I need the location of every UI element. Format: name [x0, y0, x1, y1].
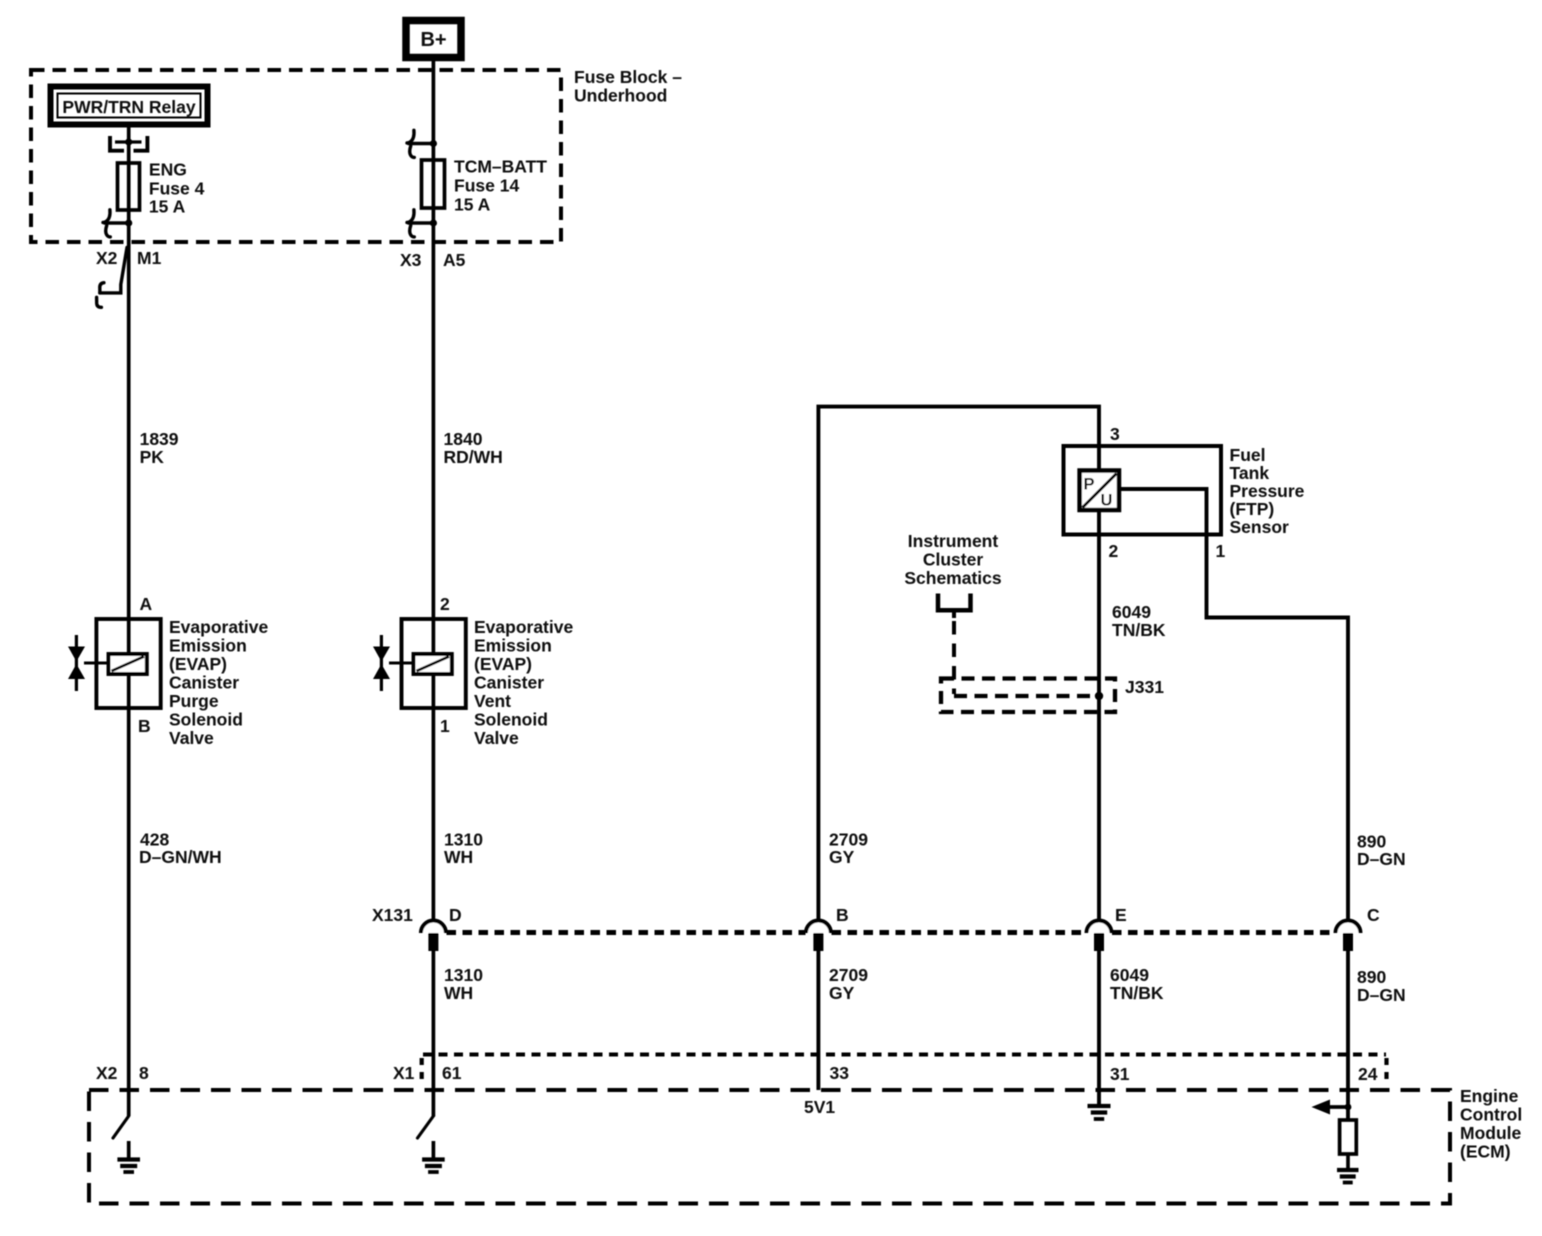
- label 1310 WH lower: [444, 965, 483, 1003]
- EVAP canister vent solenoid valve: [373, 594, 466, 736]
- signal arrow at pin 24: [1312, 1100, 1352, 1115]
- svg-text:2: 2: [440, 594, 450, 614]
- ground at ECM pin 31: [1088, 1090, 1111, 1119]
- svg-text:Schematics: Schematics: [904, 568, 1002, 588]
- X1 dotted end mark right: [1384, 1058, 1388, 1086]
- svg-text:Vent: Vent: [474, 691, 511, 711]
- svg-text:PK: PK: [140, 447, 165, 467]
- label 890 D-GN lower: [1357, 967, 1406, 1005]
- connector terminal E: [1087, 905, 1127, 951]
- splice J331 dashed enclosure: [941, 679, 1115, 713]
- svg-text:Purge: Purge: [169, 691, 219, 711]
- svg-text:Cluster: Cluster: [923, 550, 983, 570]
- svg-text:Fuse 14: Fuse 14: [454, 176, 519, 196]
- label: Evaporative Emission (EVAP) Canister Purge Solenoid Valve: [169, 617, 268, 748]
- svg-text:X1: X1: [393, 1063, 415, 1083]
- connector pass-through at X2 M1 (diagonal and hooks): [97, 248, 127, 308]
- wire 890 D-GN run: FTP pin 1 to connector C: [1119, 489, 1348, 920]
- label 2709 GY lower: [829, 965, 868, 1003]
- svg-text:1310: 1310: [444, 965, 483, 985]
- svg-text:GY: GY: [829, 847, 855, 867]
- engine control module dashed box: [89, 1090, 1450, 1204]
- svg-text:TN/BK: TN/BK: [1110, 983, 1164, 1003]
- svg-text:J331: J331: [1125, 677, 1164, 697]
- label 1839 PK: [140, 429, 179, 467]
- svg-text:ENG: ENG: [149, 160, 187, 180]
- svg-text:3: 3: [1110, 424, 1120, 444]
- dashed reference wire to instrument cluster: [952, 621, 956, 694]
- label: Fuel Tank Pressure (FTP) Sensor: [1230, 445, 1305, 537]
- svg-text:GY: GY: [829, 983, 855, 1003]
- svg-text:U: U: [1101, 492, 1113, 510]
- svg-text:WH: WH: [444, 847, 473, 867]
- fuse block underhood dashed box: [31, 70, 561, 242]
- connector X131 dashed line: [447, 930, 1336, 935]
- connector terminal above TCM fuse: [407, 130, 437, 157]
- svg-text:WH: WH: [444, 983, 473, 1003]
- label 6049 TN/BK lower: [1110, 965, 1164, 1003]
- svg-text:X2: X2: [96, 1063, 118, 1083]
- svg-text:X131: X131: [372, 905, 413, 925]
- svg-text:(EVAP): (EVAP): [169, 654, 227, 674]
- connector terminal below ENG fuse: [103, 210, 132, 237]
- svg-text:1839: 1839: [140, 429, 179, 449]
- connector terminal C: [1336, 905, 1381, 951]
- connector X3 A5 labels: [400, 250, 466, 270]
- svg-text:1840: 1840: [444, 429, 483, 449]
- label 890 D-GN upper: [1357, 832, 1406, 870]
- relay PWR/TRN Relay label box: [51, 87, 208, 125]
- svg-text:15 A: 15 A: [454, 195, 491, 215]
- svg-text:2: 2: [1109, 541, 1119, 561]
- svg-text:1: 1: [440, 716, 450, 736]
- svg-text:Valve: Valve: [169, 728, 214, 748]
- svg-text:33: 33: [830, 1063, 850, 1083]
- svg-text:Valve: Valve: [474, 728, 519, 748]
- svg-text:15 A: 15 A: [149, 197, 186, 217]
- svg-text:RD/WH: RD/WH: [444, 447, 503, 467]
- label: Engine Control Module (ECM): [1460, 1086, 1522, 1162]
- svg-text:D–GN: D–GN: [1357, 985, 1406, 1005]
- label: Evaporative Emission (EVAP) Canister Vent Solenoid Valve: [474, 617, 573, 748]
- svg-text:Tank: Tank: [1230, 463, 1270, 483]
- fuse TCM-BATT Fuse 14 15 A: [422, 157, 548, 215]
- svg-text:Evaporative: Evaporative: [169, 617, 268, 637]
- svg-text:D: D: [449, 905, 462, 925]
- svg-text:B: B: [836, 905, 849, 925]
- wire left branch: relay to ECM pin 8 (1839 PK / 428 D-GN/WH): [127, 124, 131, 1116]
- connector X2 M1 labels: [96, 248, 162, 268]
- connector terminal D: [421, 905, 462, 951]
- svg-text:31: 31: [1110, 1064, 1130, 1084]
- svg-text:X3: X3: [400, 250, 422, 270]
- wire resistor to ground: [1346, 1154, 1350, 1169]
- label 1840 RD/WH: [444, 429, 503, 467]
- svg-text:B+: B+: [420, 29, 446, 51]
- svg-text:5V1: 5V1: [804, 1097, 835, 1117]
- svg-text:Sensor: Sensor: [1230, 517, 1290, 537]
- svg-text:Canister: Canister: [474, 673, 544, 693]
- connector terminal B: [806, 905, 849, 951]
- svg-text:(FTP): (FTP): [1230, 499, 1275, 519]
- svg-text:TN/BK: TN/BK: [1112, 620, 1166, 640]
- svg-text:Control: Control: [1460, 1105, 1522, 1125]
- svg-text:D–GN/WH: D–GN/WH: [139, 847, 222, 867]
- svg-text:Solenoid: Solenoid: [169, 710, 243, 730]
- svg-text:24: 24: [1358, 1064, 1378, 1084]
- svg-text:Instrument: Instrument: [908, 531, 999, 551]
- pressure transducer P/U symbol: [1080, 471, 1119, 511]
- wire 2709 GY lower (connector B to ECM pin 33): [816, 951, 820, 1090]
- svg-text:Engine: Engine: [1460, 1086, 1519, 1106]
- ECM pin labels X1 61: [393, 1063, 462, 1083]
- svg-text:P: P: [1084, 476, 1095, 494]
- wire 2709 GY run: corner at top to FTP pin 3 and connector B: [818, 407, 1099, 920]
- svg-text:X2: X2: [96, 248, 118, 268]
- svg-text:PWR/TRN Relay: PWR/TRN Relay: [62, 97, 195, 117]
- ground at ECM pin 61: [422, 1141, 445, 1172]
- resistor inside ECM at pin 24: [1340, 1120, 1357, 1154]
- ECM pass-through diagonal at pin 61: [418, 1116, 434, 1138]
- ground at ECM pin 8: [117, 1141, 140, 1172]
- svg-text:1: 1: [1216, 541, 1226, 561]
- wire 1310 WH lower (connector D to ECM X1 pin 61): [432, 951, 436, 1117]
- svg-text:2709: 2709: [829, 965, 868, 985]
- svg-text:Canister: Canister: [169, 673, 239, 693]
- label 1310 WH upper: [444, 830, 483, 868]
- label: Instrument Cluster Schematics: [904, 531, 1002, 588]
- svg-text:A: A: [140, 594, 153, 614]
- svg-text:Module: Module: [1460, 1123, 1522, 1143]
- svg-text:Fuel: Fuel: [1230, 445, 1266, 465]
- svg-text:Pressure: Pressure: [1230, 481, 1305, 501]
- svg-text:Emission: Emission: [169, 636, 247, 656]
- relay output terminal bracket: [110, 136, 147, 151]
- svg-text:(ECM): (ECM): [1460, 1142, 1511, 1162]
- ECM connector X1 dotted line: [423, 1053, 1386, 1057]
- ECM pin labels X2 8: [96, 1063, 149, 1083]
- svg-text:Underhood: Underhood: [574, 86, 667, 106]
- svg-text:61: 61: [442, 1063, 462, 1083]
- svg-text:Solenoid: Solenoid: [474, 710, 548, 730]
- label 6049 TN/BK upper: [1112, 602, 1166, 640]
- fuse ENG Fuse 4 15 A: [118, 160, 205, 217]
- wire 890 D-GN lower (connector C to ECM pin 24): [1346, 951, 1350, 1120]
- svg-text:B: B: [138, 716, 151, 736]
- svg-text:Fuse Block –: Fuse Block –: [574, 67, 682, 87]
- EVAP canister purge solenoid valve: [68, 594, 161, 736]
- svg-text:TCM–BATT: TCM–BATT: [454, 157, 547, 177]
- wire 6049 TN/BK lower (connector E to ECM pin 31): [1097, 951, 1101, 1090]
- instrument cluster off-page bracket: [938, 594, 971, 619]
- ECM pass-through diagonal at pin 8: [113, 1116, 129, 1138]
- svg-text:890: 890: [1357, 967, 1386, 987]
- power node B+: [406, 21, 461, 58]
- svg-text:6049: 6049: [1110, 965, 1149, 985]
- wire TCM branch: B+ to connector D (1840 RD/WH / 1310 WH): [432, 57, 436, 920]
- svg-text:C: C: [1367, 905, 1380, 925]
- svg-text:8: 8: [139, 1063, 149, 1083]
- svg-text:Emission: Emission: [474, 636, 552, 656]
- label 2709 GY upper: [829, 830, 868, 868]
- svg-text:6049: 6049: [1112, 602, 1151, 622]
- label: Fuse Block - Underhood: [574, 67, 682, 106]
- svg-text:M1: M1: [137, 248, 162, 268]
- connector terminal below TCM fuse: [407, 210, 437, 237]
- X1 dotted end mark left: [420, 1058, 424, 1086]
- svg-text:Evaporative: Evaporative: [474, 617, 573, 637]
- svg-text:Fuse 4: Fuse 4: [149, 179, 205, 199]
- svg-text:E: E: [1115, 905, 1127, 925]
- svg-text:(EVAP): (EVAP): [474, 654, 532, 674]
- label 428 D-GN/WH: [139, 830, 222, 868]
- svg-text:D–GN: D–GN: [1357, 849, 1406, 869]
- ground at ECM pin 24 resistor: [1337, 1170, 1359, 1183]
- svg-text:A5: A5: [443, 250, 466, 270]
- fuel tank pressure sensor box: [1064, 446, 1222, 535]
